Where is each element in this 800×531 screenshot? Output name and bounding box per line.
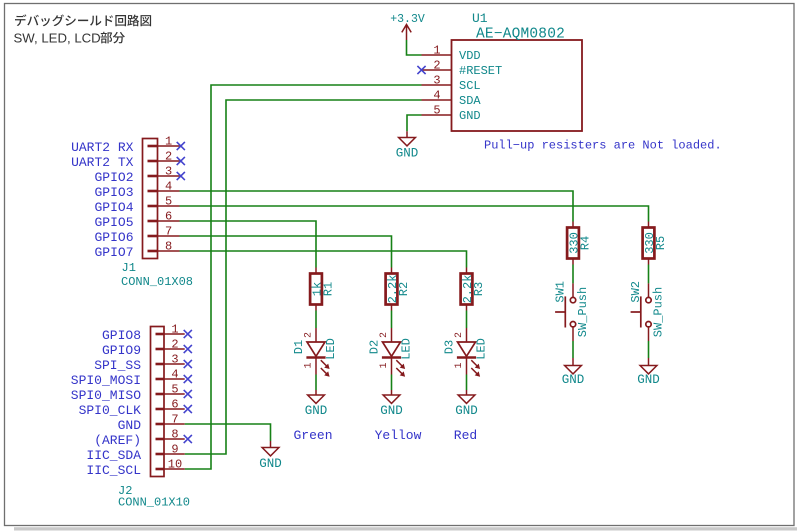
J1 pin 4 xyxy=(148,179,180,193)
svg-text:GND: GND xyxy=(305,404,328,418)
no-connect J2 pin 6 xyxy=(184,405,192,413)
no-connect J2 pin 8 xyxy=(184,435,192,443)
svg-text:2: 2 xyxy=(379,332,390,338)
svg-text:GPIO5: GPIO5 xyxy=(94,215,133,230)
svg-text:SPI0_MISO: SPI0_MISO xyxy=(71,388,141,403)
svg-text:2: 2 xyxy=(454,332,465,338)
svg-text:GPIO6: GPIO6 xyxy=(94,230,133,245)
svg-text:SPI0_MOSI: SPI0_MOSI xyxy=(71,373,141,388)
no-connect J2 pin 3 xyxy=(184,360,192,368)
wire xyxy=(466,311,468,329)
svg-text:2: 2 xyxy=(171,337,178,351)
svg-text:SPI0_CLK: SPI0_CLK xyxy=(79,403,142,418)
svg-text:D1: D1 xyxy=(292,340,306,354)
svg-text:2: 2 xyxy=(433,58,440,72)
svg-text:Green: Green xyxy=(293,428,332,443)
wire U1 pin5 to GND xyxy=(407,115,422,131)
svg-text:2: 2 xyxy=(165,149,172,163)
svg-text:4: 4 xyxy=(165,179,172,193)
resistor R4 330 xyxy=(567,222,593,265)
IC U1 AE-AQM0802 body xyxy=(452,11,583,131)
ground below U1 xyxy=(396,131,419,161)
svg-text:6: 6 xyxy=(165,209,172,223)
svg-text:CONN_01X10: CONN_01X10 xyxy=(118,496,190,510)
title text line 2 xyxy=(14,30,125,45)
LED D2 xyxy=(368,328,414,377)
svg-text:AE−AQM0802: AE−AQM0802 xyxy=(476,26,565,42)
svg-text:R4: R4 xyxy=(579,236,593,250)
svg-text:10: 10 xyxy=(168,457,182,471)
svg-text:Pull−up resisters are Not load: Pull−up resisters are Not loaded. xyxy=(484,138,722,152)
wire xyxy=(572,265,574,284)
U1 pin 4 SDA xyxy=(422,88,482,108)
svg-text:1: 1 xyxy=(379,362,390,368)
wire SW1 to ground xyxy=(572,341,574,358)
svg-text:R2: R2 xyxy=(397,282,411,296)
svg-text:GPIO4: GPIO4 xyxy=(94,200,133,215)
svg-text:1: 1 xyxy=(165,134,172,148)
J2 pin 8 xyxy=(156,427,185,441)
wire GPIO3 to R4 xyxy=(180,191,574,222)
svg-text:6: 6 xyxy=(171,397,178,411)
J1 pin 7 xyxy=(148,224,180,238)
no-connect J1 pin 1 xyxy=(177,142,185,150)
svg-text:U1: U1 xyxy=(472,11,488,26)
resistor R3 2.2k xyxy=(461,268,487,311)
ground below SW2 xyxy=(637,358,660,387)
svg-text:VDD: VDD xyxy=(459,49,481,63)
svg-text:LED: LED xyxy=(400,338,414,360)
U1 pin 5 GND xyxy=(422,103,481,123)
svg-text:GPIO7: GPIO7 xyxy=(94,245,133,260)
J2 pin 9 xyxy=(156,442,185,456)
J2 pin 4 xyxy=(156,367,185,381)
svg-text:GPIO2: GPIO2 xyxy=(94,170,133,185)
wire GPIO4 to R5 xyxy=(180,206,649,222)
svg-text:1: 1 xyxy=(303,362,314,368)
svg-text:1: 1 xyxy=(433,43,440,57)
svg-text:IIC_SDA: IIC_SDA xyxy=(86,448,141,463)
wire GPIO7 to R3 xyxy=(180,251,467,268)
svg-text:LED: LED xyxy=(475,338,489,360)
ground below SW1 xyxy=(562,358,585,387)
svg-text:SW, LED, LCD: SW, LED, LCD xyxy=(14,30,101,45)
resistor R5 330 xyxy=(643,222,669,265)
J1 pin 3 xyxy=(148,164,180,178)
wire J2 pin7 GND xyxy=(185,424,271,441)
resistor R1 1k xyxy=(310,268,336,311)
connector J2 body xyxy=(118,327,190,510)
svg-text:SW_Push: SW_Push xyxy=(652,287,666,337)
J2 pin 3 xyxy=(156,352,185,366)
svg-text:7: 7 xyxy=(165,224,172,238)
svg-text:IIC_SCL: IIC_SCL xyxy=(86,463,141,478)
no-connect J2 pin 4 xyxy=(184,375,192,383)
J1 pin 6 xyxy=(148,209,180,223)
svg-text:GPIO9: GPIO9 xyxy=(102,343,141,358)
J2 pin 2 xyxy=(156,337,185,351)
wire SDA: U1 pin4 to J2 pin9 xyxy=(185,100,422,454)
svg-text:9: 9 xyxy=(171,442,178,456)
svg-text:GND: GND xyxy=(455,404,478,418)
svg-text:GND: GND xyxy=(459,109,481,123)
svg-text:SPI_SS: SPI_SS xyxy=(94,358,141,373)
switch SW1 xyxy=(554,281,591,341)
svg-text:LED: LED xyxy=(324,338,338,360)
J2 pin 5 xyxy=(156,382,185,396)
svg-text:3: 3 xyxy=(433,73,440,87)
svg-text:R5: R5 xyxy=(654,236,668,250)
svg-text:GND: GND xyxy=(637,373,660,387)
svg-text:SW_Push: SW_Push xyxy=(576,287,590,337)
svg-text:4: 4 xyxy=(433,88,440,102)
svg-text:#RESET: #RESET xyxy=(459,64,502,78)
no-connect J2 pin 1 xyxy=(184,330,192,338)
svg-text:(AREF): (AREF) xyxy=(94,433,141,448)
wire +3.3V to U1 pin1 xyxy=(407,40,422,55)
svg-text:UART2 RX: UART2 RX xyxy=(71,140,134,155)
svg-text:D2: D2 xyxy=(368,340,382,354)
U1 pin 1 VDD xyxy=(422,43,481,63)
svg-text:CONN_01X08: CONN_01X08 xyxy=(121,275,193,289)
resistor R2 2.2k xyxy=(386,268,412,311)
power symbol +3.3V xyxy=(390,13,425,40)
wire GPIO5 to R1 xyxy=(180,221,317,268)
ground below D1 xyxy=(305,390,328,418)
wire xyxy=(648,265,650,284)
svg-text:GND: GND xyxy=(396,147,419,161)
no-connect J2 pin 2 xyxy=(184,345,192,353)
svg-text:3: 3 xyxy=(171,352,178,366)
wire D1 to ground xyxy=(315,375,317,391)
svg-text:SW1: SW1 xyxy=(554,281,568,303)
svg-text:GND: GND xyxy=(118,418,142,433)
svg-text:4: 4 xyxy=(171,367,178,381)
wire SW2 to ground xyxy=(648,341,650,358)
svg-text:SDA: SDA xyxy=(459,94,481,108)
svg-text:Yellow: Yellow xyxy=(375,428,422,443)
no-connect J1 pin 3 xyxy=(177,172,185,180)
no-connect J1 pin 2 xyxy=(177,157,185,165)
J2 pin 10 xyxy=(156,457,185,471)
svg-text:1: 1 xyxy=(171,322,178,336)
svg-text:2: 2 xyxy=(303,332,314,338)
J2 pin 6 xyxy=(156,397,185,411)
U1 pin 3 SCL xyxy=(422,73,481,93)
svg-text:5: 5 xyxy=(171,382,178,396)
svg-text:3: 3 xyxy=(165,164,172,178)
ground below D3 xyxy=(455,390,478,418)
svg-text:5: 5 xyxy=(165,194,172,208)
J1 pin 5 xyxy=(148,194,180,208)
svg-text:J1: J1 xyxy=(122,261,136,275)
svg-text:GPIO3: GPIO3 xyxy=(94,185,133,200)
svg-text:R1: R1 xyxy=(322,282,336,296)
svg-text:Red: Red xyxy=(454,428,477,443)
wire SCL: U1 pin3 to J2 pin10 xyxy=(185,85,422,469)
svg-text:GND: GND xyxy=(259,457,282,471)
svg-text:SW2: SW2 xyxy=(629,281,643,303)
svg-text:D3: D3 xyxy=(443,340,457,354)
svg-text:GND: GND xyxy=(562,373,585,387)
ground near J2 xyxy=(259,441,282,471)
svg-text:GND: GND xyxy=(380,404,403,418)
no-connect U1 pin 2 xyxy=(417,66,425,74)
wire GPIO6 to R2 xyxy=(180,236,392,268)
ground below D2 xyxy=(380,390,403,418)
svg-text:7: 7 xyxy=(171,412,178,426)
no-connect J2 pin 5 xyxy=(184,390,192,398)
svg-text:5: 5 xyxy=(433,103,440,117)
wire D3 to ground xyxy=(466,375,468,391)
wire xyxy=(391,311,393,329)
svg-text:GPIO8: GPIO8 xyxy=(102,328,141,343)
connector J1 body xyxy=(121,139,193,290)
svg-text:SCL: SCL xyxy=(459,79,481,93)
LED D1 xyxy=(292,328,338,377)
svg-text:8: 8 xyxy=(165,239,172,253)
J1 pin 1 xyxy=(148,134,180,148)
svg-text:R3: R3 xyxy=(472,282,486,296)
J1 pin 8 xyxy=(148,239,180,253)
switch SW2 xyxy=(629,281,666,341)
J1 pin 2 xyxy=(148,149,180,163)
svg-text:8: 8 xyxy=(171,427,178,441)
svg-text:UART2 TX: UART2 TX xyxy=(71,155,134,170)
LED D3 xyxy=(443,328,489,377)
U1 pin 2 #RESET xyxy=(422,58,503,78)
J2 pin 7 xyxy=(156,412,185,426)
svg-text:+3.3V: +3.3V xyxy=(390,13,425,26)
wire D2 to ground xyxy=(391,375,393,391)
J2 pin 1 xyxy=(156,322,185,336)
wire xyxy=(315,311,317,329)
title text line 1 (Japanese) xyxy=(15,14,151,26)
svg-text:1: 1 xyxy=(454,362,465,368)
